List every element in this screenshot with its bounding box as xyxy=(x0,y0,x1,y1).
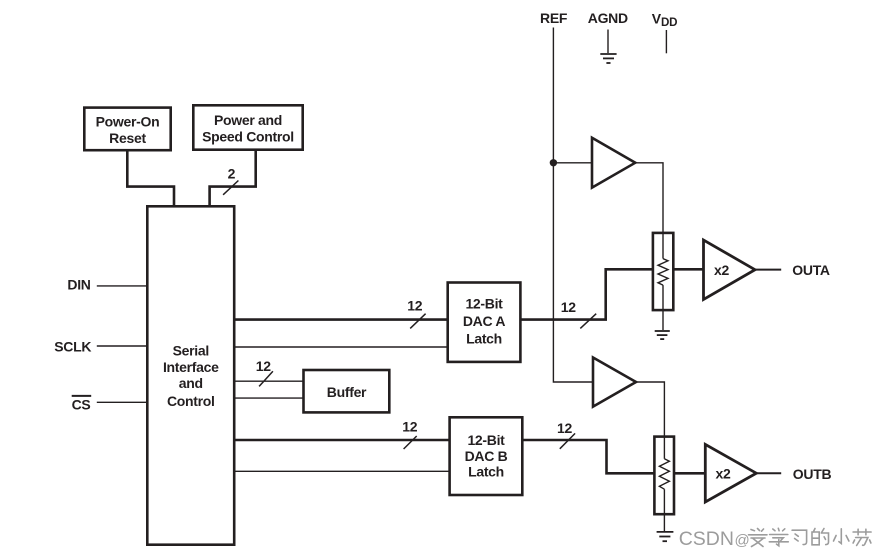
svg-text:12: 12 xyxy=(402,418,417,434)
svg-text:12-Bit: 12-Bit xyxy=(465,296,503,312)
svg-text:DAC A: DAC A xyxy=(463,313,506,329)
svg-text:REF: REF xyxy=(540,10,568,26)
svg-text:x2: x2 xyxy=(716,465,731,481)
svg-text:CS: CS xyxy=(72,397,91,413)
svg-text:DAC B: DAC B xyxy=(465,448,508,464)
svg-text:x2: x2 xyxy=(714,262,729,278)
svg-text:12: 12 xyxy=(256,358,271,374)
svg-text:Power and: Power and xyxy=(214,112,282,128)
svg-text:SCLK: SCLK xyxy=(54,338,91,354)
svg-text:@: @ xyxy=(735,532,750,549)
svg-text:12: 12 xyxy=(407,298,422,314)
svg-text:Serial: Serial xyxy=(173,342,209,358)
svg-text:Buffer: Buffer xyxy=(327,384,367,400)
svg-text:Interface: Interface xyxy=(163,359,219,375)
svg-text:2: 2 xyxy=(228,165,236,181)
svg-text:AGND: AGND xyxy=(588,10,628,26)
svg-text:Speed Control: Speed Control xyxy=(202,128,294,144)
svg-text:Latch: Latch xyxy=(466,331,502,347)
svg-text:12-Bit: 12-Bit xyxy=(467,432,505,448)
svg-text:DD: DD xyxy=(661,16,677,29)
svg-text:CSDN: CSDN xyxy=(679,528,734,550)
svg-text:Control: Control xyxy=(167,393,215,409)
svg-text:12: 12 xyxy=(561,299,576,315)
svg-text:OUTB: OUTB xyxy=(793,466,832,482)
svg-text:Reset: Reset xyxy=(109,130,146,146)
svg-text:Latch: Latch xyxy=(468,464,504,480)
svg-text:DIN: DIN xyxy=(67,276,90,292)
svg-text:OUTA: OUTA xyxy=(792,262,830,278)
svg-text:12: 12 xyxy=(557,420,572,436)
svg-text:Power-On: Power-On xyxy=(96,113,160,129)
svg-text:and: and xyxy=(179,375,203,391)
